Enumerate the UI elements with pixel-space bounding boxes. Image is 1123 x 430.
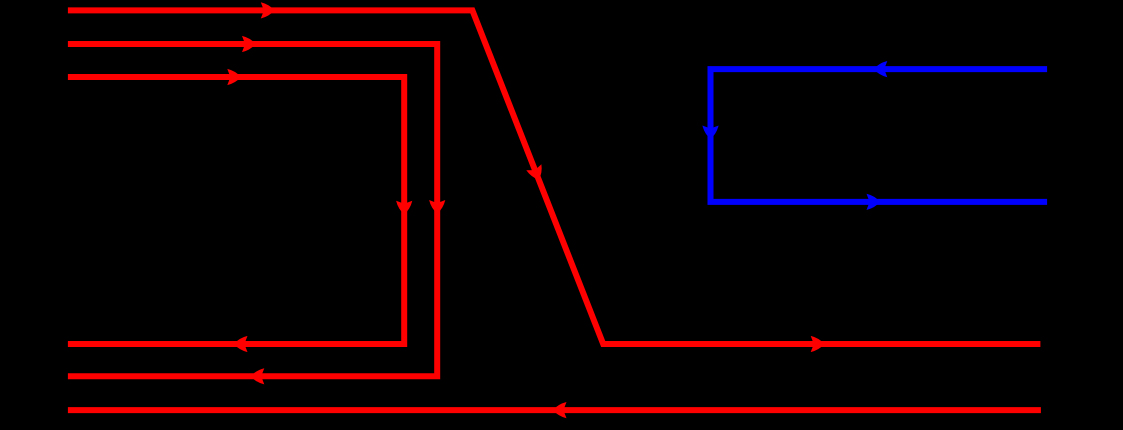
arrowhead right on red line3 (227, 69, 241, 85)
arrowhead left on red bottom line (553, 402, 567, 418)
arrowhead left on red return y=344 (234, 336, 248, 352)
wire red line2 loop: right at y=44, down at x=437.2, left at y=376.3 (68, 44, 437, 376)
arrowhead on red diagonal (526, 164, 541, 180)
arrowhead left on red return y=376.3 (251, 368, 264, 384)
arrowhead down on red vertical x=437.2 (429, 200, 445, 214)
arrowhead right on red line1 (261, 2, 275, 18)
wire red line3 loop: right at y=77, down at x=404.2, left at y=344 (68, 77, 404, 344)
arrowhead right on red lower-right horizontal (811, 336, 825, 352)
wire blue loop: top at y=69.1, down at x=710.5, right at y=201.9 (711, 69, 1048, 202)
arrowhead down on red vertical x=404.2 (396, 201, 412, 215)
wire red line1: top horizontal, diagonal down, lower-right horizontal (68, 10, 1041, 344)
arrowhead right on red line2 (242, 36, 256, 52)
arrowhead down on blue vertical (702, 126, 718, 140)
arrowhead right on blue bottom line (867, 194, 881, 210)
arrowhead left on blue top line (874, 61, 888, 77)
wire red bottom line at y=410.15 (68, 407, 1041, 413)
